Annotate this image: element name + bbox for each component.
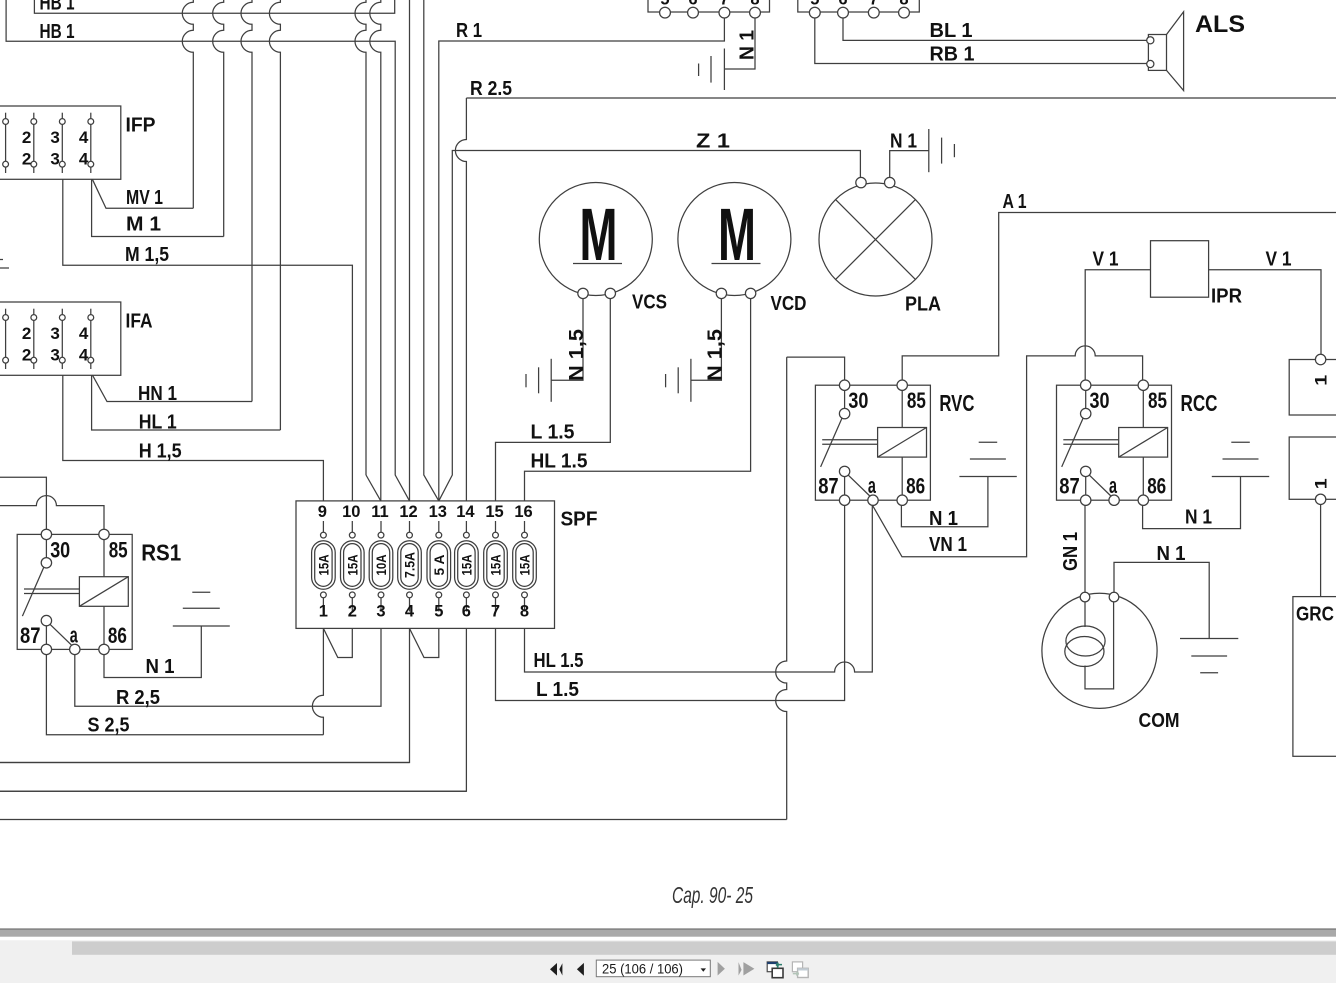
svg-text:7: 7 — [869, 0, 878, 9]
svg-text:N 1: N 1 — [737, 30, 759, 60]
svg-text:PLA: PLA — [905, 294, 941, 316]
wire RVC 86 to ground N1 — [901, 477, 988, 527]
svg-text:7: 7 — [720, 0, 729, 9]
svg-text:9: 9 — [318, 503, 327, 521]
IFP pin column 4 — [90, 113, 92, 119]
relay RS1 terminal 86 — [99, 644, 109, 654]
IFP pin column 2 — [33, 113, 35, 119]
toolbar: page combo box — [596, 960, 710, 977]
relay RCC 87i-a diagonal — [1089, 475, 1111, 496]
ALS terminal 1 — [1147, 37, 1154, 44]
relay RVC — [815, 385, 930, 500]
svg-text:15A: 15A — [517, 555, 533, 576]
svg-text:86: 86 — [1147, 474, 1166, 499]
relay RVC stub 30-inner — [844, 390, 846, 408]
svg-text:H 1,5: H 1,5 — [139, 441, 182, 463]
wire to SPF pin11 left — [355, 0, 366, 475]
svg-text:86: 86 — [906, 474, 925, 499]
svg-text:3: 3 — [376, 603, 385, 621]
svg-text:5: 5 — [660, 0, 669, 9]
speaker ALS — [1148, 35, 1166, 71]
svg-text:15A: 15A — [488, 555, 504, 576]
ground symbol N1 (left-pointing) — [723, 49, 725, 91]
relay RCC terminal a — [1109, 495, 1119, 505]
relay RCC stub 30-inner — [1085, 390, 1087, 408]
wire R1 from connector pin3 to SPF pin13 — [439, 18, 725, 501]
svg-text:4: 4 — [405, 603, 415, 621]
relay RS1 terminal 87 — [41, 644, 51, 654]
IFA pin column 4 — [90, 309, 92, 315]
svg-text:7.5A: 7.5A — [402, 552, 418, 578]
svg-text:COM: COM — [1139, 710, 1180, 732]
bottom gray separator bar — [0, 928, 1336, 936]
IFA pin column 2 — [33, 309, 35, 315]
relay RVC terminal 86 — [897, 495, 907, 505]
svg-text:2: 2 — [22, 346, 31, 365]
svg-text:N 1: N 1 — [146, 656, 175, 678]
wire M1 horizontal to IFP pin4 — [92, 179, 224, 236]
horizontal scrollbar track — [0, 940, 1336, 983]
svg-text:8: 8 — [520, 603, 529, 621]
svg-text:HB 1: HB 1 — [40, 21, 75, 43]
svg-text:RCC: RCC — [1181, 390, 1218, 416]
relay RS1 stub 87i-87 — [45, 626, 47, 644]
svg-text:RS1: RS1 — [141, 539, 181, 565]
svg-text:3: 3 — [50, 346, 59, 365]
relay RVC actuation linkage — [822, 440, 877, 445]
svg-text:ALS: ALS — [1195, 11, 1245, 38]
svg-text:HB 1: HB 1 — [40, 0, 75, 14]
wire RB1 — [815, 18, 1147, 64]
IFA pin column 1 — [5, 309, 7, 315]
svg-text:4: 4 — [79, 128, 89, 147]
ground symbol RS1 (inverted, bars up) — [173, 625, 230, 627]
wire to SPF pin12 straight — [409, 0, 411, 501]
svg-text:Cap. 90- 25: Cap. 90- 25 — [672, 882, 753, 908]
wire H1,5 from IFA pin3 to SPF pin9 — [63, 375, 324, 501]
svg-text:85: 85 — [1148, 388, 1167, 413]
wire R2.5 vertical to SPF pin14 (hop over Z1) — [455, 98, 466, 501]
COM terminal right — [1109, 592, 1119, 602]
connector block top-left (cut at top) — [648, 0, 770, 12]
connector2 pin 2 terminal — [838, 7, 849, 18]
relay RVC stub 85-coil — [901, 390, 903, 427]
connector IFA — [0, 302, 121, 375]
svg-text:8: 8 — [750, 0, 759, 9]
connector2 pin 3 terminal — [868, 7, 879, 18]
relay RS1 terminal 85 — [99, 529, 109, 539]
wire MV1 vertical — [182, 0, 193, 208]
wire M1,5 from IFP pin3 to SPF pin10 — [63, 179, 353, 501]
wire BL1 — [843, 18, 1147, 40]
relay RVC switch arm — [821, 418, 842, 467]
svg-text:S 2,5: S 2,5 — [88, 715, 130, 737]
motor VCS underline — [573, 263, 622, 265]
connector1 pin 2 terminal — [688, 7, 699, 18]
edge connector box 2 — [1289, 437, 1336, 499]
fuse box SPF — [296, 501, 555, 629]
wire HL1 horizontal to IFA pin4 — [92, 375, 281, 430]
svg-text:30: 30 — [1090, 388, 1110, 413]
lamp PLA — [819, 183, 932, 296]
svg-text:3: 3 — [50, 324, 59, 343]
wire RCC 86 to ground N1 — [1143, 477, 1241, 529]
svg-text:IFP: IFP — [126, 115, 156, 137]
svg-text:2: 2 — [22, 324, 31, 343]
COM terminal left — [1080, 592, 1090, 602]
box IPR — [1151, 241, 1209, 298]
relay RVC stub coil-86 — [901, 457, 903, 495]
relay RS1 — [17, 534, 132, 649]
wire to SPF pin11 straight — [370, 0, 381, 501]
svg-text:HL 1: HL 1 — [139, 412, 177, 434]
svg-text:GRC: GRC — [1296, 604, 1334, 626]
relay RCC terminal 87 — [1081, 495, 1091, 505]
svg-text:4: 4 — [79, 150, 89, 169]
svg-text:30: 30 — [50, 537, 70, 562]
VCS terminal left — [578, 288, 588, 298]
relay RCC actuation linkage — [1063, 440, 1118, 445]
ground symbol VCD (left-pointing) — [690, 359, 692, 402]
svg-text:5: 5 — [434, 603, 443, 621]
svg-text:L 1.5: L 1.5 — [536, 679, 579, 701]
wire HL1.5 lower: SPF pin8 to RVC a (hop over x=844.6) — [525, 505, 873, 672]
wire M1 vertical — [213, 0, 224, 237]
relay RVC coil — [878, 428, 927, 458]
svg-text:15A: 15A — [316, 555, 332, 576]
svg-text:N 1: N 1 — [929, 508, 958, 530]
svg-text:HL 1.5: HL 1.5 — [534, 650, 584, 672]
toolbar: previous page button — [577, 963, 584, 976]
wire bend into pin11 — [366, 475, 381, 501]
wire bottom 2 — [0, 790, 466, 792]
svg-text:5: 5 — [810, 0, 819, 9]
connector2 pin 1 terminal — [809, 7, 820, 18]
wire GN1: RCC 87 to COM — [1084, 505, 1086, 592]
relay RS1 stub 85-coil — [103, 540, 105, 577]
svg-text:87: 87 — [20, 623, 41, 648]
relay RVC 87i-a diagonal — [848, 475, 870, 496]
edge box2 terminal — [1315, 494, 1325, 504]
wire HB1 lower — [6, 0, 409, 501]
horizontal scrollbar thumb — [72, 941, 1336, 954]
PLA terminal left (Z1) — [856, 177, 866, 187]
svg-text:N 1,5: N 1,5 — [704, 329, 726, 381]
svg-text:2: 2 — [22, 128, 31, 147]
ground symbol VCS (left-pointing) — [550, 359, 552, 402]
relay RS1 terminal a — [70, 644, 80, 654]
horn COM — [1042, 593, 1157, 708]
wire L1.5 lower: SPF pin7 to RVC 87 — [496, 505, 845, 701]
relay RVC terminal 30 — [839, 380, 849, 390]
wire A1 — [902, 213, 1336, 381]
svg-text:HN 1: HN 1 — [138, 383, 177, 405]
wire Z1 — [439, 151, 861, 501]
svg-text:15: 15 — [485, 503, 503, 521]
svg-text:M 1,5: M 1,5 — [125, 244, 169, 266]
relay RCC terminal 30 — [1081, 380, 1091, 390]
svg-text:a: a — [1109, 473, 1117, 498]
svg-text:N 1: N 1 — [890, 131, 917, 153]
svg-text:1: 1 — [1312, 478, 1331, 489]
relay RS1 inner contact — [41, 558, 51, 568]
svg-text:MV 1: MV 1 — [126, 187, 163, 209]
svg-text:87: 87 — [818, 474, 839, 499]
connector2 cut pin digits — [810, 0, 908, 9]
svg-text:VCS: VCS — [632, 292, 667, 314]
relay RVC terminal a — [868, 495, 878, 505]
box GRC — [1293, 597, 1336, 757]
wire S2,5: RS1 87 to SPF pin1 — [46, 654, 323, 735]
svg-text:1: 1 — [1312, 375, 1331, 386]
wire HN1 horizontal to IFA — [92, 375, 252, 402]
relay RCC contact 87 inner — [1081, 466, 1091, 476]
wire to SPF pin13 left diagonal — [424, 0, 439, 501]
wire connector1 pin4 to ground N1 — [724, 18, 755, 69]
svg-text:5 A: 5 A — [431, 555, 447, 576]
svg-text:7: 7 — [491, 603, 500, 621]
svg-text:VCD: VCD — [771, 293, 807, 315]
svg-text:13: 13 — [429, 503, 447, 521]
relay RS1 stub coil-86 — [103, 606, 105, 644]
svg-text:N 1: N 1 — [1185, 507, 1212, 529]
relay RCC stub coil-86 — [1142, 457, 1144, 495]
svg-text:N 1: N 1 — [1157, 543, 1186, 565]
svg-text:IFA: IFA — [126, 311, 153, 333]
ground symbol RCC (inverted, bars up) — [1212, 476, 1269, 478]
svg-text:V 1: V 1 — [1266, 249, 1292, 271]
relay RCC stub 85-coil — [1142, 390, 1144, 427]
VCD terminal left — [716, 288, 726, 298]
svg-text:10: 10 — [342, 503, 360, 521]
svg-text:85: 85 — [109, 537, 128, 562]
connector1 cut pin digits — [660, 0, 759, 9]
toolbar: copy page icon (enabled) — [767, 962, 783, 978]
svg-text:A 1: A 1 — [1003, 191, 1027, 213]
svg-text:SPF: SPF — [561, 509, 598, 531]
ground symbol right of PLA (right-pointing) — [928, 129, 930, 172]
toolbar: last page button (disabled) — [739, 962, 742, 975]
svg-text:16: 16 — [514, 503, 532, 521]
svg-text:V 1: V 1 — [1093, 249, 1119, 271]
wire R2.5 horizontal bus to right edge — [466, 97, 1336, 99]
wire L1.5 from VCS to SPF pin15 — [496, 299, 611, 501]
connector IFP — [0, 106, 121, 179]
wire HN1 vertical — [241, 0, 252, 402]
relay RCC terminal 86 — [1138, 495, 1148, 505]
svg-text:HL 1.5: HL 1.5 — [531, 451, 588, 473]
ALS terminal 2 — [1147, 60, 1154, 67]
svg-text:25 (106 / 106): 25 (106 / 106) — [602, 960, 683, 976]
svg-text:11: 11 — [371, 503, 388, 521]
wire from left edge to RS1 85 (hop over RS1-30 wire) — [0, 496, 104, 530]
ground symbol RVC (inverted, bars up) — [959, 476, 1016, 478]
connector2 pin 4 terminal — [899, 7, 910, 18]
ground symbol COM (bars down) — [1180, 638, 1238, 640]
connector1 pin 3 terminal — [719, 7, 730, 18]
toolbar: export page icon (disabled) — [792, 962, 808, 978]
svg-text:3: 3 — [50, 128, 59, 147]
partial ground symbol at left edge — [0, 259, 3, 261]
wire VCD left terminal to ground N1,5 — [691, 299, 722, 381]
wire HL1 vertical — [269, 0, 280, 430]
svg-text:85: 85 — [907, 388, 926, 413]
svg-text:10A: 10A — [373, 555, 389, 576]
svg-text:2: 2 — [348, 603, 357, 621]
relay RS1 switch arm — [22, 567, 43, 616]
relay RS1 terminal 30 — [41, 529, 51, 539]
relay RCC switch arm — [1062, 418, 1083, 467]
svg-text:VN 1: VN 1 — [929, 534, 967, 556]
svg-text:3: 3 — [50, 150, 59, 169]
wire riser top to RVC 30 — [787, 357, 845, 380]
wire VN1: RVC a to RCC 85 (hop over V1 riser) — [872, 346, 1142, 557]
svg-text:15A: 15A — [345, 555, 361, 576]
wire HL1.5 from VCD to SPF pin16 — [525, 299, 751, 501]
wire from left edge to RS1 30 — [0, 477, 46, 529]
wire bottom 1 — [0, 762, 410, 764]
relay RVC terminal 85 — [897, 380, 907, 390]
svg-text:14: 14 — [456, 503, 475, 521]
connector block top-middle (cut at top) — [798, 0, 920, 12]
relay RS1 actuation linkage — [24, 589, 79, 594]
svg-text:RVC: RVC — [939, 390, 974, 416]
wire SPF pin4 down to left edge — [0, 628, 410, 762]
relay RVC contact 87 inner — [839, 466, 849, 476]
relay RS1 coil — [79, 577, 128, 607]
relay RCC terminal 85 — [1138, 380, 1148, 390]
edge connector box 1 — [1289, 360, 1336, 416]
svg-text:12: 12 — [399, 503, 417, 521]
motor VCD — [678, 183, 791, 296]
relay RCC stub 87i-87 — [1085, 477, 1087, 495]
svg-text:86: 86 — [108, 623, 127, 648]
svg-text:4: 4 — [79, 346, 89, 365]
svg-text:R 2,5: R 2,5 — [116, 687, 160, 709]
jumper SPF pins 1-2 — [323, 628, 352, 657]
VCS terminal right — [605, 288, 615, 298]
VCD terminal right — [745, 288, 755, 298]
toolbar: first page button — [550, 963, 584, 976]
svg-text:GN 1: GN 1 — [1060, 532, 1082, 571]
wire RVC left riser (hops over HL1.5/L1.5) — [776, 357, 787, 819]
svg-text:L 1.5: L 1.5 — [531, 422, 575, 444]
svg-text:Z 1: Z 1 — [696, 131, 730, 153]
wire MV1 horizontal to IFP — [92, 179, 193, 208]
svg-text:a: a — [70, 622, 78, 647]
wire SPF pin6 down to left edge — [0, 628, 466, 791]
svg-text:IPR: IPR — [1211, 286, 1243, 308]
edge box1 terminal — [1315, 354, 1325, 364]
jumper SPF pins 4-5 — [410, 628, 439, 657]
svg-text:6: 6 — [838, 0, 847, 9]
connector1 pin 4 terminal — [750, 7, 761, 18]
svg-text:R 1: R 1 — [456, 20, 482, 42]
relay RVC terminal 87 — [839, 495, 849, 505]
svg-text:RB 1: RB 1 — [930, 44, 975, 66]
relay RVC inner contact — [839, 408, 849, 418]
relay RVC stub 87i-87 — [844, 477, 846, 495]
svg-text:30: 30 — [848, 388, 868, 413]
COM internal coil — [1084, 602, 1086, 627]
relay RCC inner contact — [1081, 408, 1091, 418]
wire N1: COM to ground — [1114, 562, 1209, 638]
relay RS1 contact 87 inner — [41, 615, 51, 625]
wire N1 of PLA to ground — [890, 151, 929, 178]
wire RS1 86 to ground N1 — [104, 626, 201, 678]
motor VCS — [539, 183, 652, 296]
svg-text:BL 1: BL 1 — [930, 20, 973, 42]
svg-text:N 1,5: N 1,5 — [566, 329, 588, 381]
svg-text:M 1: M 1 — [126, 214, 161, 236]
IFP pin column 3 — [61, 113, 63, 119]
wire HB1 upper — [34, 0, 394, 13]
wire edge box2 to GRC — [1320, 505, 1322, 597]
PLA terminal right (N1) — [885, 177, 895, 187]
svg-text:15A: 15A — [459, 555, 475, 576]
svg-text:2: 2 — [22, 150, 31, 169]
svg-text:R 2.5: R 2.5 — [470, 78, 512, 100]
wire VCS left terminal to ground N1,5 — [551, 299, 583, 381]
relay RCC — [1057, 385, 1172, 500]
IFA pin column 3 — [61, 309, 63, 315]
wire SPF pin1 down (hop over R2,5) — [312, 628, 323, 734]
IFP pin column 1 — [5, 113, 7, 119]
svg-text:1: 1 — [319, 603, 328, 621]
wire R2,5: RS1 a to SPF pin3 — [75, 628, 381, 706]
svg-text:8: 8 — [899, 0, 908, 9]
svg-text:87: 87 — [1059, 474, 1080, 499]
toolbar: next page button (disabled) — [718, 962, 755, 976]
motor VCD underline — [712, 263, 761, 265]
svg-text:6: 6 — [462, 603, 471, 621]
svg-text:4: 4 — [79, 324, 89, 343]
relay RS1 stub 30-inner — [45, 540, 47, 558]
wire V1 right to edge box 1 — [1209, 270, 1321, 355]
connector1 pin 1 terminal — [660, 7, 671, 18]
svg-text:6: 6 — [688, 0, 697, 9]
relay RS1 87i-a diagonal — [50, 624, 72, 645]
relay RCC coil — [1119, 428, 1168, 458]
svg-text:a: a — [868, 473, 876, 498]
wire V1 left to RCC 30 — [1085, 270, 1150, 381]
